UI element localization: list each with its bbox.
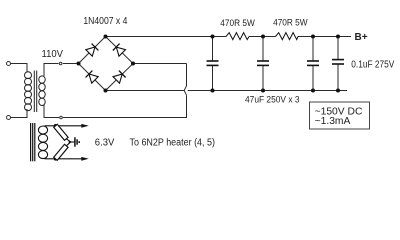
svg-text:110V: 110V	[42, 49, 64, 60]
svg-text:~1.3mA: ~1.3mA	[315, 116, 351, 127]
svg-text:To 6N2P heater (4, 5): To 6N2P heater (4, 5)	[130, 138, 216, 149]
svg-text:B+: B+	[355, 32, 368, 43]
svg-text:6.3V: 6.3V	[95, 138, 115, 149]
svg-text:47uF 250V x 3: 47uF 250V x 3	[245, 95, 300, 106]
svg-text:470R 5W: 470R 5W	[220, 18, 255, 29]
svg-text:0.1uF 275V: 0.1uF 275V	[351, 60, 394, 71]
svg-text:1N4007 x 4: 1N4007 x 4	[83, 16, 127, 27]
svg-text:470R 5W: 470R 5W	[273, 18, 308, 29]
